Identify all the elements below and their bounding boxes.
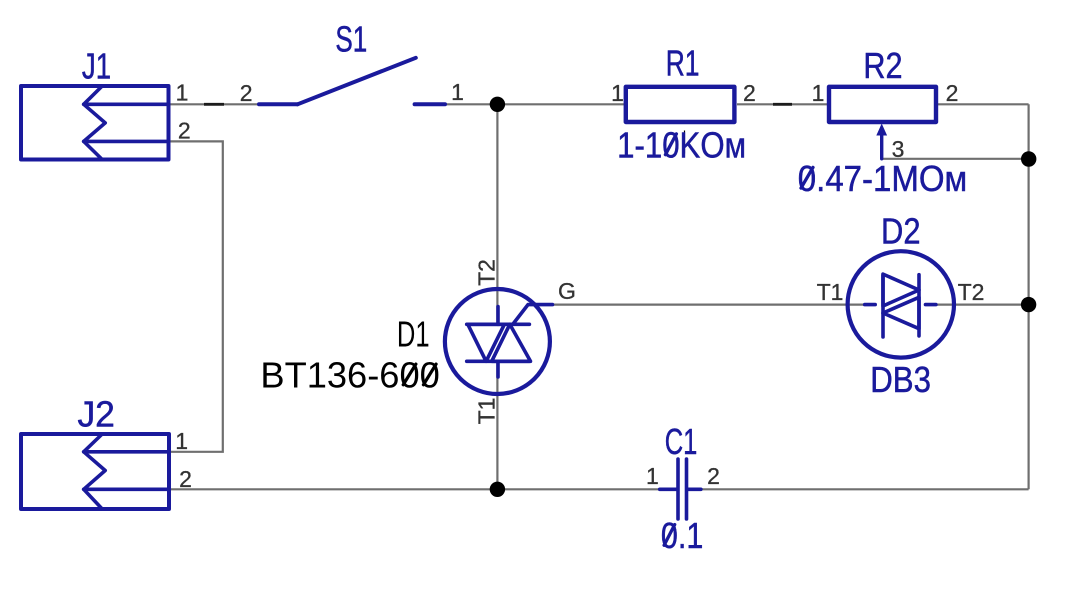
svg-text:BT136-600: BT136-600	[260, 355, 439, 396]
svg-text:T2: T2	[958, 279, 985, 305]
svg-text:0.1: 0.1	[661, 515, 703, 556]
svg-text:2: 2	[946, 80, 959, 106]
svg-text:DB3: DB3	[870, 359, 931, 400]
svg-text:C1: C1	[665, 421, 698, 462]
svg-text:2: 2	[743, 80, 756, 106]
svg-text:T2: T2	[474, 259, 500, 286]
svg-text:1: 1	[176, 80, 189, 106]
svg-text:1: 1	[175, 428, 188, 454]
svg-text:1: 1	[646, 463, 659, 489]
svg-text:1: 1	[812, 80, 825, 106]
svg-text:0.47-1MOм: 0.47-1MOм	[798, 158, 967, 199]
svg-text:R2: R2	[863, 45, 902, 86]
svg-text:G: G	[558, 278, 576, 304]
svg-text:2: 2	[178, 118, 191, 144]
svg-text:S1: S1	[335, 18, 367, 59]
svg-text:J1: J1	[82, 46, 111, 87]
svg-text:J2: J2	[77, 394, 115, 435]
svg-text:1: 1	[451, 79, 464, 105]
svg-text:1: 1	[611, 80, 624, 106]
svg-text:2: 2	[707, 463, 720, 489]
svg-text:T1: T1	[474, 398, 500, 425]
svg-text:1-10KOм: 1-10KOм	[617, 124, 746, 165]
svg-text:R1: R1	[666, 43, 700, 84]
svg-text:D2: D2	[881, 211, 921, 252]
svg-text:3: 3	[892, 136, 905, 162]
svg-text:2: 2	[240, 80, 253, 106]
svg-text:2: 2	[179, 466, 192, 492]
svg-text:D1: D1	[397, 314, 430, 355]
svg-text:T1: T1	[817, 279, 844, 305]
